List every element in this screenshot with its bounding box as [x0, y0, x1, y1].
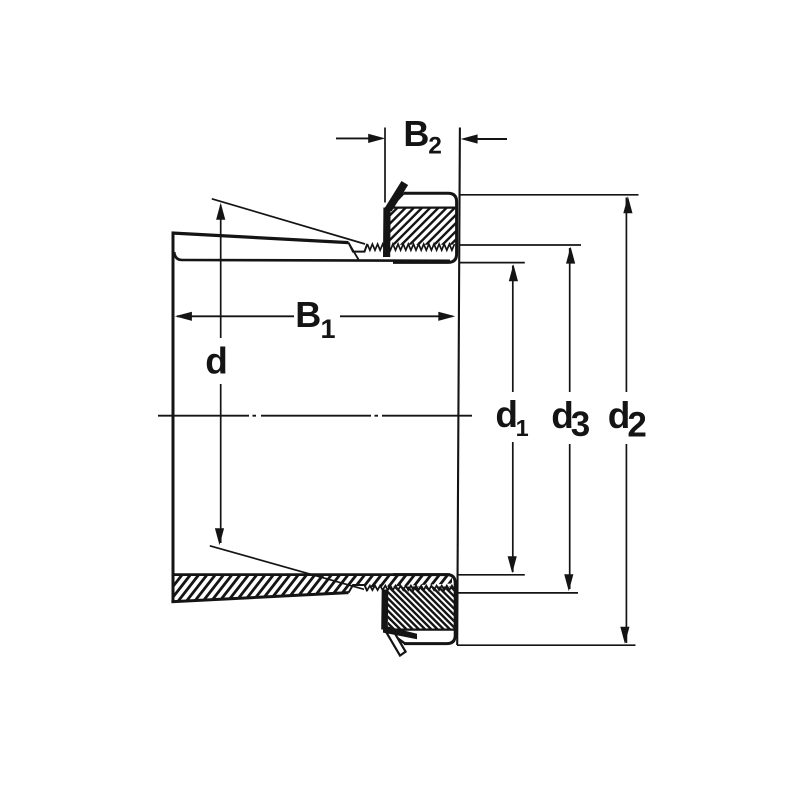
svg-text:3: 3: [571, 405, 590, 444]
svg-text:d: d: [205, 341, 228, 382]
lock nut outline bottom: [393, 575, 455, 644]
lock washer bent tab top: [388, 183, 405, 210]
dimension d1 extension bottom: [458, 574, 525, 576]
lock washer straight tab bottom: [386, 628, 405, 655]
dimension d3 line: [569, 248, 571, 392]
dimension d3 extension top: [460, 244, 581, 246]
svg-text:2: 2: [627, 405, 646, 444]
sleeve bore line top: [174, 252, 450, 261]
dimension B2 arrow left: [336, 137, 382, 139]
lock nut chamfer bottom: [384, 628, 406, 644]
dimension d oblique extension top: [212, 199, 365, 244]
sleeve section hatching bottom: [47, 534, 571, 642]
sleeve/nut thread profile top: [367, 244, 454, 250]
dimension d1 arrow up: [509, 264, 518, 281]
lock nut hatch boundary top: [389, 207, 456, 209]
svg-text:B: B: [403, 113, 429, 154]
dimension B1 arrow left: [175, 312, 192, 321]
lock nut hatch boundary bottom: [387, 628, 455, 630]
lock nut outline top: [393, 193, 457, 262]
dimension d2 extension bottom: [457, 644, 636, 646]
dimension d2 arrow down: [620, 627, 629, 644]
sleeve/nut thread profile bottom: [367, 586, 454, 591]
dimension d3 extension bottom: [457, 592, 579, 594]
dimension d oblique extension bottom: [210, 546, 364, 590]
svg-text:B: B: [295, 294, 321, 335]
dimension B2 extension line right: [457, 128, 460, 646]
dimension B1 arrow right: [438, 312, 455, 321]
dimension d2 line: [625, 198, 627, 393]
lock washer body top: [383, 208, 391, 258]
sleeve tapered outer surface top: [172, 233, 349, 243]
dimension d3 arrow up: [566, 247, 575, 264]
dimension B2 arrow right: [464, 138, 507, 140]
sleeve bore line bottom: [172, 573, 450, 576]
dimension B1 line: [177, 315, 294, 317]
dimension d arrow up: [216, 203, 225, 220]
lock washer bent tab bottom: [383, 625, 417, 639]
svg-text:1: 1: [321, 314, 336, 344]
dimension d arrow down: [215, 528, 224, 545]
dimension d2 extension top: [460, 194, 639, 196]
sleeve left end face: [172, 232, 175, 603]
lock nut section hatching top: [227, 166, 611, 288]
dimension d1 arrow down: [508, 556, 517, 573]
sleeve thread relief notch top: [349, 243, 368, 252]
lock nut section hatching bottom: [224, 546, 615, 670]
sleeve tapered outer surface bottom: [171, 593, 348, 602]
dimension B2 extension line left: [384, 128, 386, 203]
lock nut chamfer top: [390, 193, 404, 208]
centerline axis: [158, 415, 472, 417]
svg-text:2: 2: [428, 133, 442, 160]
dimension d line: [220, 205, 222, 338]
dimension d2 arrow up: [623, 196, 632, 213]
dimension d1 line: [512, 266, 514, 393]
sleeve thread relief notch bottom: [349, 585, 368, 593]
lock washer body bottom: [381, 590, 388, 630]
sleeve slit line top: [350, 245, 359, 260]
svg-text:1: 1: [516, 415, 529, 441]
dimension d1 extension top: [460, 262, 525, 264]
dimension d3 arrow down: [564, 574, 573, 591]
